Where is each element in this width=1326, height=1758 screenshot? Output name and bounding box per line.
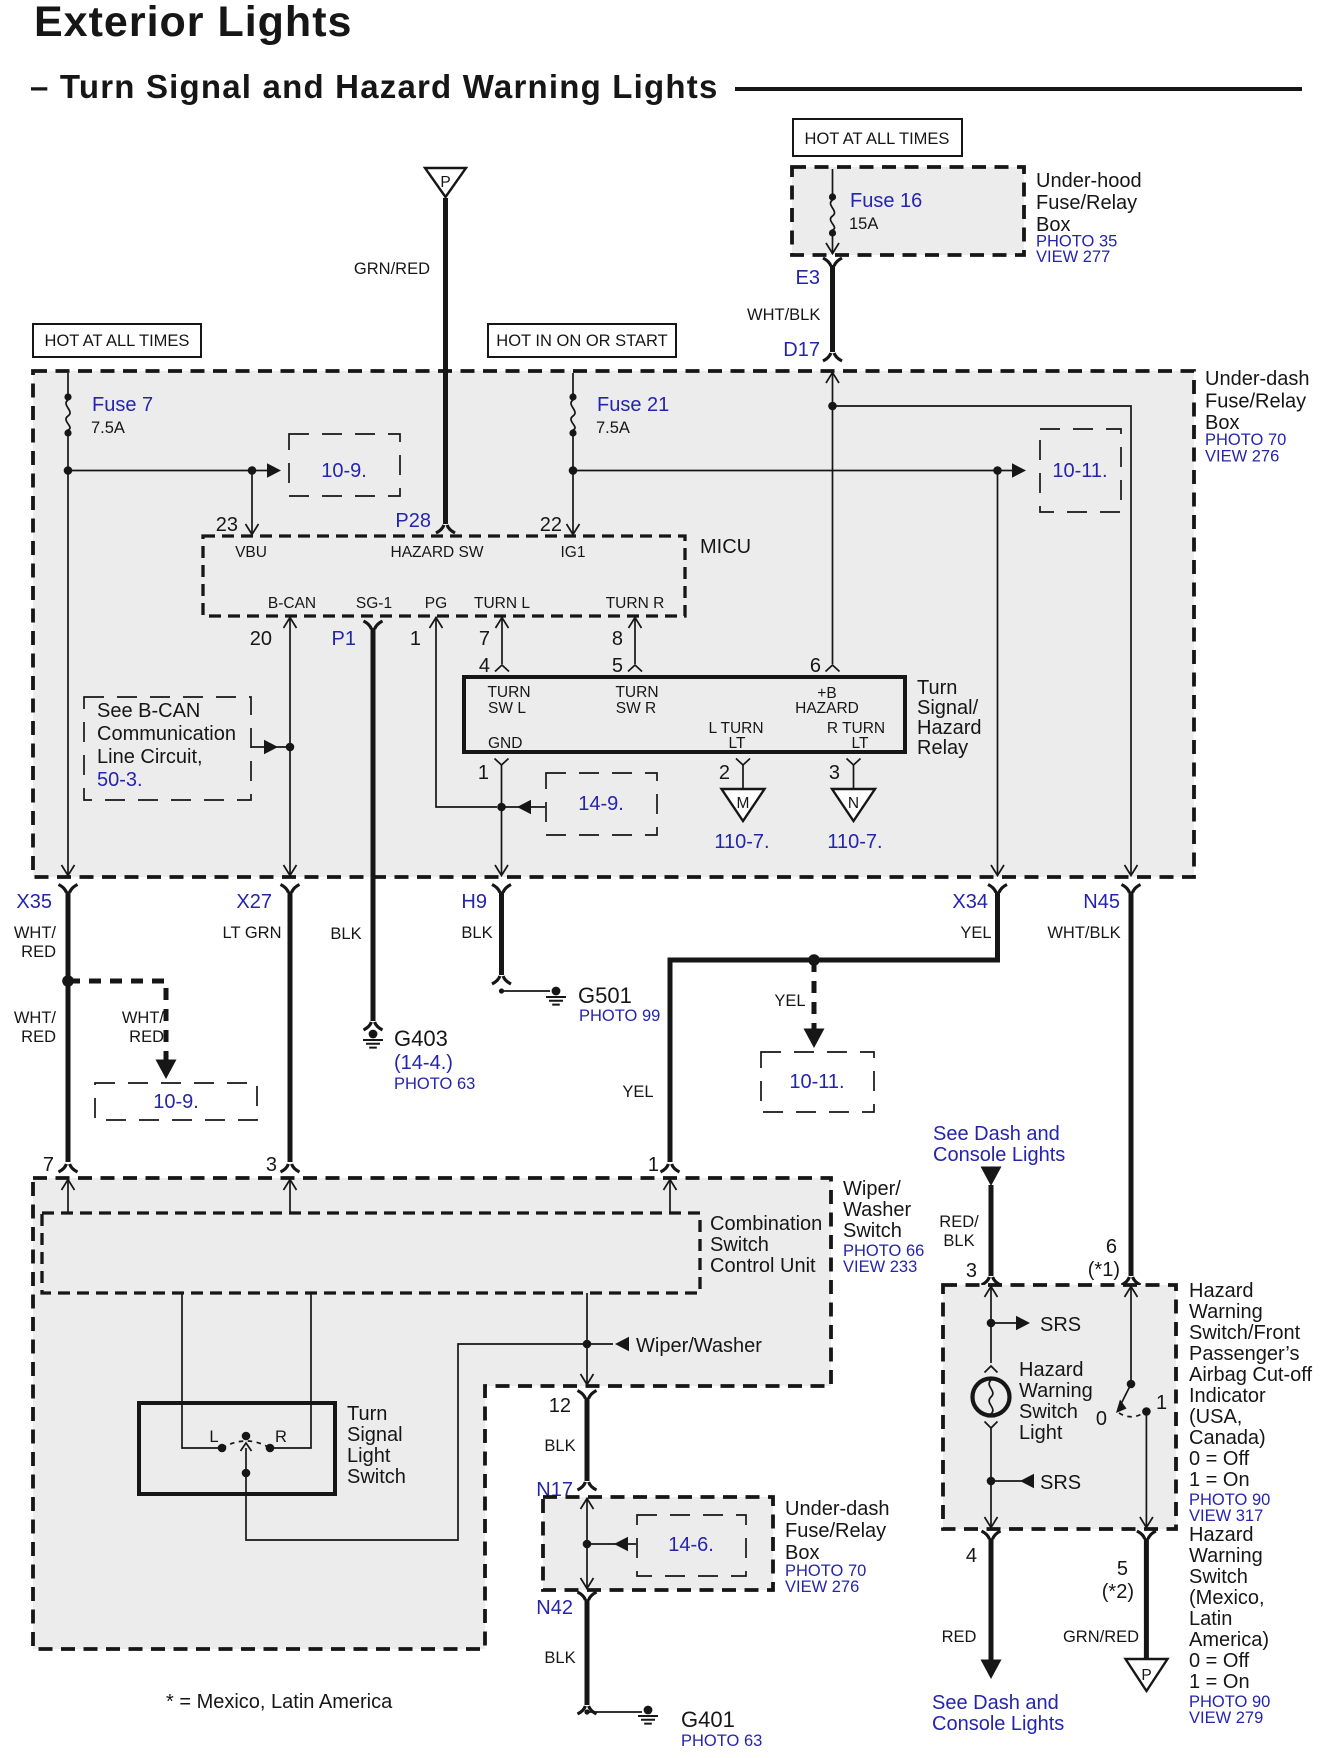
svg-text:Line Circuit,: Line Circuit, — [97, 746, 203, 768]
svg-text:IG1: IG1 — [561, 544, 586, 561]
svg-text:P1: P1 — [332, 628, 356, 650]
svg-text:SG-1: SG-1 — [356, 595, 392, 612]
label Turn Signal Light Switch — [347, 1403, 406, 1488]
node SRS tap (upper) — [987, 1314, 1081, 1336]
svg-text:Warning: Warning — [1189, 1545, 1263, 1567]
svg-text:P: P — [1141, 1667, 1151, 1684]
svg-text:Warning: Warning — [1189, 1301, 1263, 1323]
wire RED/BLK from dash — [939, 1167, 1001, 1283]
svg-text:Under-dash: Under-dash — [785, 1498, 890, 1520]
svg-text:2: 2 — [719, 762, 730, 784]
svg-text:10-9.: 10-9. — [321, 460, 367, 482]
wire TURN L to relay pin 4 — [496, 617, 509, 664]
svg-text:Fuse 7: Fuse 7 — [92, 394, 153, 416]
svg-text:RED: RED — [21, 943, 56, 961]
svg-text:PG: PG — [425, 595, 447, 612]
title: Exterior Lights — [34, 0, 352, 46]
relay pin 1 GND — [478, 759, 509, 785]
svg-text:1: 1 — [410, 628, 421, 650]
subtitle: Turn Signal and Hazard Warning Lights — [30, 68, 719, 105]
fuse 7 — [64, 373, 71, 437]
HOT AT ALL TIMES box (left) — [33, 324, 201, 357]
svg-text:Fuse/Relay: Fuse/Relay — [785, 1520, 886, 1542]
svg-text:4: 4 — [479, 655, 490, 677]
wire branch to N45 drop — [833, 406, 1132, 875]
svg-text:HAZARD: HAZARD — [795, 700, 859, 717]
svg-text:VIEW 317: VIEW 317 — [1189, 1507, 1263, 1525]
svg-text:20: 20 — [250, 628, 272, 650]
svg-text:BLK: BLK — [943, 1232, 974, 1250]
svg-text:PHOTO 70: PHOTO 70 — [1205, 431, 1286, 449]
svg-text:4: 4 — [966, 1545, 977, 1567]
lamp symbol M (left turn lights) — [714, 789, 769, 853]
svg-text:Hazard: Hazard — [1189, 1280, 1253, 1302]
svg-text:WHT/: WHT/ — [14, 924, 57, 942]
wire bulb to pin 4 — [985, 1428, 998, 1528]
svg-text:America): America) — [1189, 1629, 1269, 1651]
label Fuse 21 7.5A — [596, 394, 669, 437]
svg-text:M: M — [737, 795, 750, 812]
svg-text:14-6.: 14-6. — [668, 1534, 714, 1556]
svg-text:TURN R: TURN R — [606, 595, 665, 612]
svg-text:12: 12 — [549, 1395, 571, 1417]
svg-text:WHT/BLK: WHT/BLK — [747, 306, 820, 324]
svg-text:Wiper/: Wiper/ — [843, 1178, 901, 1200]
svg-text:10-11.: 10-11. — [789, 1071, 844, 1093]
wire SG-1 / P1 (BLK) to G403 — [330, 621, 382, 1021]
relay pin 3 R TURN LT — [829, 759, 861, 790]
connector at hazard pin 6 — [1122, 1277, 1141, 1285]
connector P28 — [395, 510, 455, 533]
svg-text:Control Unit: Control Unit — [710, 1255, 816, 1277]
ref box 10-9. — [289, 434, 400, 496]
wire turn signal switch to node — [246, 1344, 587, 1540]
connector X27 — [236, 885, 299, 914]
svg-text:X27: X27 — [236, 891, 272, 913]
svg-text:0 = Off: 0 = Off — [1189, 1448, 1250, 1470]
switch lever — [241, 1432, 252, 1478]
svg-text:(14-4.): (14-4.) — [394, 1052, 453, 1074]
svg-text:Turn: Turn — [347, 1403, 387, 1425]
svg-text:Box: Box — [785, 1542, 819, 1564]
wire wiper/washer tap — [587, 1335, 762, 1357]
svg-text:N: N — [848, 795, 859, 812]
combination switch outer box (Wiper/Washer Switch) — [33, 1178, 831, 1649]
connector D17 — [783, 339, 842, 361]
svg-text:SW L: SW L — [488, 700, 526, 717]
svg-text:VIEW 233: VIEW 233 — [843, 1258, 917, 1276]
svg-text:BLK: BLK — [461, 924, 492, 942]
label Combination Switch Control Unit — [710, 1213, 822, 1277]
svg-text:GRN/RED: GRN/RED — [354, 260, 430, 278]
svg-text:Fuse/Relay: Fuse/Relay — [1036, 192, 1137, 214]
svg-text:GND: GND — [488, 735, 522, 752]
connector hazard pin 4 — [966, 1531, 1001, 1567]
svg-text:TURN L: TURN L — [474, 595, 530, 612]
Under-dash Fuse/Relay Box (dashed, grey) — [33, 371, 1194, 877]
power symbol P (bottom) — [1126, 1659, 1168, 1691]
MICU pin numbers bottom — [250, 628, 623, 650]
svg-text:10-11.: 10-11. — [1052, 460, 1107, 482]
svg-text:Under-hood: Under-hood — [1036, 170, 1142, 192]
svg-text:SRS: SRS — [1040, 1314, 1081, 1336]
svg-text:22: 22 — [540, 514, 562, 536]
wire control unit to R contact — [274, 1293, 311, 1448]
svg-text:5: 5 — [1117, 1558, 1128, 1580]
node D17 branch — [828, 402, 837, 411]
svg-text:HOT IN ON OR START: HOT IN ON OR START — [496, 332, 667, 350]
svg-text:Relay: Relay — [917, 737, 968, 759]
svg-text:WHT/BLK: WHT/BLK — [1047, 924, 1120, 942]
svg-text:Switch/Front: Switch/Front — [1189, 1322, 1301, 1344]
wire GRN/RED to P — [1063, 1539, 1146, 1660]
node SRS tap (lower) — [987, 1472, 1081, 1494]
wire note to B-CAN line — [251, 740, 288, 754]
svg-text:E3: E3 — [796, 267, 820, 289]
svg-text:1: 1 — [1156, 1392, 1167, 1414]
node wiper/washer — [583, 1340, 592, 1349]
switch S2 hazard — [1096, 1380, 1167, 1430]
pin chevron 5 — [628, 665, 642, 672]
power symbol P (GRN/RED source) — [425, 168, 466, 197]
turn signal light switch box — [139, 1403, 335, 1494]
svg-text:P28: P28 — [395, 510, 431, 532]
connector H9 — [461, 885, 511, 914]
svg-text:G403: G403 — [394, 1026, 448, 1051]
svg-text:* = Mexico, Latin America: * = Mexico, Latin America — [166, 1691, 393, 1713]
node 14-6 tap — [583, 1537, 636, 1551]
svg-text:1: 1 — [478, 762, 489, 784]
svg-text:VBU: VBU — [235, 544, 267, 561]
wire B-CAN to X27 — [284, 617, 297, 875]
ground G403 — [363, 1022, 475, 1093]
svg-text:6: 6 — [1106, 1236, 1117, 1258]
svg-text:HOT AT ALL TIMES: HOT AT ALL TIMES — [805, 130, 950, 148]
svg-text:YEL: YEL — [774, 992, 805, 1010]
node X35 branch — [62, 975, 74, 987]
svg-text:1: 1 — [648, 1154, 659, 1176]
svg-text:Console Lights: Console Lights — [932, 1713, 1064, 1735]
svg-text:G501: G501 — [578, 983, 632, 1008]
svg-text:Communication: Communication — [97, 723, 236, 745]
svg-text:SW R: SW R — [616, 700, 656, 717]
svg-text:RED: RED — [129, 1028, 164, 1046]
wire BLK N42 to G401 — [544, 1600, 587, 1706]
dashed wire YEL branch to 10-11 — [774, 960, 824, 1048]
connector pin 12 — [549, 1391, 597, 1418]
svg-text:Fuse 16: Fuse 16 — [850, 190, 922, 212]
svg-text:Passenger’s: Passenger’s — [1189, 1343, 1299, 1365]
svg-text:(*1): (*1) — [1088, 1259, 1120, 1281]
label Under-hood Fuse/Relay Box — [1036, 170, 1142, 266]
svg-text:(USA,: (USA, — [1189, 1406, 1242, 1428]
svg-text:50-3.: 50-3. — [97, 769, 143, 791]
wire X34 drop inside box — [997, 471, 999, 876]
header rule — [735, 87, 1302, 91]
svg-text:Switch: Switch — [1189, 1566, 1248, 1588]
label Fuse 16 15A — [849, 190, 922, 233]
svg-text:X35: X35 — [16, 891, 52, 913]
svg-text:6: 6 — [810, 655, 821, 677]
fuse 16 — [826, 169, 839, 254]
svg-text:GRN/RED: GRN/RED — [1063, 1628, 1139, 1646]
svg-text:Indicator: Indicator — [1189, 1385, 1266, 1407]
relay pin numbers top — [479, 655, 821, 677]
svg-text:0: 0 — [1096, 1408, 1107, 1430]
svg-text:7.5A: 7.5A — [596, 419, 630, 437]
svg-text:YEL: YEL — [960, 924, 991, 942]
label Turn Signal/Hazard Relay — [917, 677, 981, 759]
switch S1 contacts L/R — [209, 1428, 287, 1452]
svg-text:Switch: Switch — [1019, 1401, 1078, 1423]
svg-text:SRS: SRS — [1040, 1472, 1081, 1494]
svg-text:LT: LT — [729, 735, 746, 752]
svg-text:7.5A: 7.5A — [91, 419, 125, 437]
svg-text:TURN: TURN — [487, 684, 530, 701]
svg-text:5: 5 — [612, 655, 623, 677]
svg-text:H9: H9 — [461, 891, 487, 913]
wire to VBU pin 23 — [216, 471, 259, 537]
ref box 10-11. (lower) — [761, 1052, 874, 1112]
svg-text:VIEW 276: VIEW 276 — [785, 1578, 859, 1596]
svg-text:LT GRN: LT GRN — [223, 924, 282, 942]
wire X34 YEL routing to combination switch pin 1 — [622, 892, 997, 1163]
node YEL branch — [808, 954, 820, 966]
wire X35 WHT/RED down — [14, 892, 68, 1163]
svg-text:Console Lights: Console Lights — [933, 1144, 1065, 1166]
svg-text:Fuse/Relay: Fuse/Relay — [1205, 391, 1306, 413]
svg-text:7: 7 — [43, 1154, 54, 1176]
svg-text:Canada): Canada) — [1189, 1427, 1266, 1449]
fuse 21 — [569, 373, 576, 437]
svg-text:See Dash and: See Dash and — [932, 1692, 1059, 1714]
svg-text:VIEW 279: VIEW 279 — [1189, 1709, 1263, 1727]
svg-text:14-9.: 14-9. — [578, 793, 624, 815]
svg-text:D17: D17 — [783, 339, 820, 361]
connector E3 — [796, 258, 842, 289]
MICU box — [203, 536, 751, 616]
svg-text:YEL: YEL — [622, 1083, 653, 1101]
svg-text:23: 23 — [216, 514, 238, 536]
label pin 6 (*1) — [1088, 1236, 1120, 1281]
note * = Mexico, Latin America — [166, 1691, 393, 1713]
svg-text:7: 7 — [479, 628, 490, 650]
svg-text:Fuse 21: Fuse 21 — [597, 394, 669, 416]
svg-text:1 = On: 1 = On — [1189, 1469, 1250, 1491]
wire switch to pin 5 — [1140, 1412, 1153, 1529]
svg-text:TURN: TURN — [615, 684, 658, 701]
wire control unit to L contact — [182, 1293, 218, 1448]
See B-CAN note box — [84, 697, 251, 800]
wire X27 LT GRN down — [223, 892, 290, 1163]
connector N17 — [536, 1479, 596, 1501]
svg-text:Latin: Latin — [1189, 1608, 1232, 1630]
svg-text:Under-dash: Under-dash — [1205, 368, 1310, 390]
svg-text:N42: N42 — [536, 1597, 573, 1619]
svg-text:B-CAN: B-CAN — [268, 595, 316, 612]
svg-text:110-7.: 110-7. — [714, 831, 769, 853]
connector pin 3 — [266, 1154, 300, 1213]
svg-text:Switch: Switch — [347, 1466, 406, 1488]
connector X35 — [16, 885, 77, 914]
box-edge arrows at bottom of under-dash box — [62, 865, 1138, 876]
relay U1 Turn Signal/Hazard Relay box — [464, 677, 905, 752]
label Hazard Warning Switch Light — [1019, 1359, 1093, 1444]
svg-text:Warning: Warning — [1019, 1380, 1093, 1402]
svg-text:15A: 15A — [849, 215, 878, 233]
Combination Switch Control Unit box — [42, 1213, 700, 1293]
ref box 10-11. — [1040, 429, 1121, 512]
svg-text:Signal: Signal — [347, 1424, 403, 1446]
wire control unit to wiper/washer node — [586, 1293, 588, 1344]
wire fuse21 to IG1 pin 22 — [540, 433, 580, 536]
HOT AT ALL TIMES box (top right) — [793, 119, 962, 156]
MICU pin names bottom — [268, 595, 664, 612]
HOT IN ON OR START box — [488, 324, 676, 357]
MICU pin names top — [235, 544, 585, 561]
connector at hazard pin 3 — [982, 1277, 1001, 1285]
svg-text:G401: G401 — [681, 1707, 735, 1732]
svg-text:Wiper/Washer: Wiper/Washer — [636, 1335, 762, 1357]
lamp symbol N (right turn lights) — [827, 789, 882, 853]
svg-text:BLK: BLK — [544, 1649, 575, 1667]
connector hazard pin 5 — [1102, 1531, 1156, 1603]
svg-text:LT: LT — [852, 735, 869, 752]
wire PG to GND junction — [430, 617, 498, 807]
svg-text:Combination: Combination — [710, 1213, 822, 1235]
wire RED to dash lights — [942, 1539, 1002, 1680]
svg-text:Hazard: Hazard — [1189, 1524, 1253, 1546]
wire D17 feed into box — [826, 372, 839, 664]
label Hazard Warning Switch/Front Passenger's Airbag Cut-off Indicator — [1189, 1280, 1312, 1525]
svg-text:1 = On: 1 = On — [1189, 1671, 1250, 1693]
wire branch to 10-9 — [68, 463, 281, 477]
svg-text:VIEW 276: VIEW 276 — [1205, 448, 1279, 466]
svg-text:See Dash and: See Dash and — [933, 1123, 1060, 1145]
label Under-dash Fuse/Relay Box (lower) — [785, 1498, 890, 1596]
connector pin 7 — [43, 1154, 78, 1213]
bulb hazard warning switch light — [973, 1366, 1010, 1428]
svg-text:Turn: Turn — [917, 677, 957, 699]
svg-text:VIEW 277: VIEW 277 — [1036, 248, 1110, 266]
wire fuse21 branch to 10-11 — [573, 463, 1026, 477]
under-dash fuse/relay box (lower) — [543, 1497, 773, 1590]
svg-text:Light: Light — [347, 1445, 391, 1467]
svg-text:Signal/: Signal/ — [917, 697, 979, 719]
node B-CAN junction — [286, 743, 295, 752]
pin chevron 4 — [495, 665, 509, 672]
hazard warning switch box — [943, 1285, 1176, 1529]
svg-text:10-9.: 10-9. — [153, 1091, 199, 1113]
dashed wire WHT/RED branch to 10-9 — [68, 981, 177, 1079]
wire hazard pin 6 feed — [1125, 1286, 1138, 1384]
svg-text:Hazard: Hazard — [1019, 1359, 1083, 1381]
svg-text:0 = Off: 0 = Off — [1189, 1650, 1250, 1672]
svg-text:3: 3 — [966, 1260, 977, 1282]
ref box 10-9. (lower) — [95, 1083, 257, 1120]
note See Dash and Console Lights (bottom) — [932, 1692, 1064, 1735]
wire junction to 14-9 — [502, 800, 546, 814]
ref box 14-6. — [637, 1515, 746, 1576]
wire hazard pin 3 feed — [985, 1286, 998, 1363]
wire BLK 12 to N17 — [544, 1398, 587, 1481]
connector X34 — [952, 885, 1007, 914]
svg-text:L: L — [209, 1428, 218, 1446]
svg-text:RED/: RED/ — [939, 1213, 979, 1231]
svg-text:X34: X34 — [952, 891, 988, 913]
svg-text:MICU: MICU — [700, 536, 751, 558]
svg-text:(*2): (*2) — [1102, 1581, 1134, 1603]
svg-text:Washer: Washer — [843, 1199, 912, 1221]
relay pin names — [487, 684, 885, 752]
svg-text:Airbag Cut-off: Airbag Cut-off — [1189, 1364, 1312, 1386]
svg-text:PHOTO 99: PHOTO 99 — [579, 1007, 660, 1025]
svg-text:3: 3 — [829, 762, 840, 784]
svg-text:See B-CAN: See B-CAN — [97, 700, 200, 722]
svg-text:N45: N45 — [1083, 891, 1120, 913]
svg-text:(Mexico,: (Mexico, — [1189, 1587, 1265, 1609]
ground G401 — [578, 1706, 763, 1750]
svg-text:Switch: Switch — [843, 1220, 902, 1242]
svg-text:WHT/: WHT/ — [122, 1009, 165, 1027]
wire WHT/BLK E3 to D17 — [747, 265, 833, 352]
label Fuse 7 7.5A — [91, 394, 153, 437]
svg-text:BLK: BLK — [330, 925, 361, 943]
label Under-dash Fuse/Relay Box — [1205, 368, 1310, 466]
svg-text:3: 3 — [266, 1154, 277, 1176]
svg-text:Light: Light — [1019, 1422, 1063, 1444]
connector N45 — [1083, 885, 1140, 914]
svg-text:Switch: Switch — [710, 1234, 769, 1256]
wire fuse7 down to X35 — [67, 433, 69, 875]
svg-text:110-7.: 110-7. — [827, 831, 882, 853]
wire TURN R to relay pin 5 — [629, 617, 642, 664]
ref box 14-9. — [546, 773, 657, 835]
wire through lower box — [581, 1498, 594, 1589]
svg-text:HAZARD SW: HAZARD SW — [391, 544, 484, 561]
wire GRN/RED to HAZARD SW — [354, 198, 446, 524]
pin chevron 6 — [826, 665, 840, 672]
svg-text:Hazard: Hazard — [917, 717, 981, 739]
svg-text:HOT AT ALL TIMES: HOT AT ALL TIMES — [45, 332, 190, 350]
wire H9 BLK down — [461, 892, 501, 976]
node GND/PG junction — [497, 803, 506, 812]
note See Dash and Console Lights (top) — [933, 1123, 1065, 1166]
relay pin 2 L TURN LT — [719, 759, 750, 790]
Under-hood Fuse/Relay Box (dashed) — [792, 167, 1024, 255]
connector N42 — [536, 1592, 596, 1619]
svg-text:8: 8 — [612, 628, 623, 650]
node fuse7 branch — [64, 466, 73, 475]
svg-text:R: R — [275, 1428, 287, 1446]
svg-text:RED: RED — [21, 1028, 56, 1046]
svg-text:PHOTO 63: PHOTO 63 — [394, 1075, 475, 1093]
svg-text:P: P — [440, 174, 450, 191]
ground G501 — [492, 976, 660, 1025]
svg-text:PHOTO 63: PHOTO 63 — [681, 1732, 762, 1750]
svg-text:BLK: BLK — [544, 1437, 575, 1455]
svg-text:RED: RED — [942, 1628, 977, 1646]
wire GND down to H9 — [495, 765, 508, 876]
connector pin 1 — [648, 1154, 680, 1213]
svg-text:Exterior Lights: Exterior Lights — [34, 0, 352, 46]
svg-text:– Turn Signal and Hazard Warni: – Turn Signal and Hazard Warning Lights — [30, 68, 719, 105]
label Hazard Warning Switch (Mexico, Latin America) — [1189, 1524, 1270, 1727]
svg-text:WHT/: WHT/ — [14, 1009, 57, 1027]
wire node to pin 12 — [581, 1344, 594, 1385]
wire N45 WHT/BLK down — [1047, 892, 1131, 1277]
label Wiper/Washer Switch — [843, 1178, 924, 1276]
